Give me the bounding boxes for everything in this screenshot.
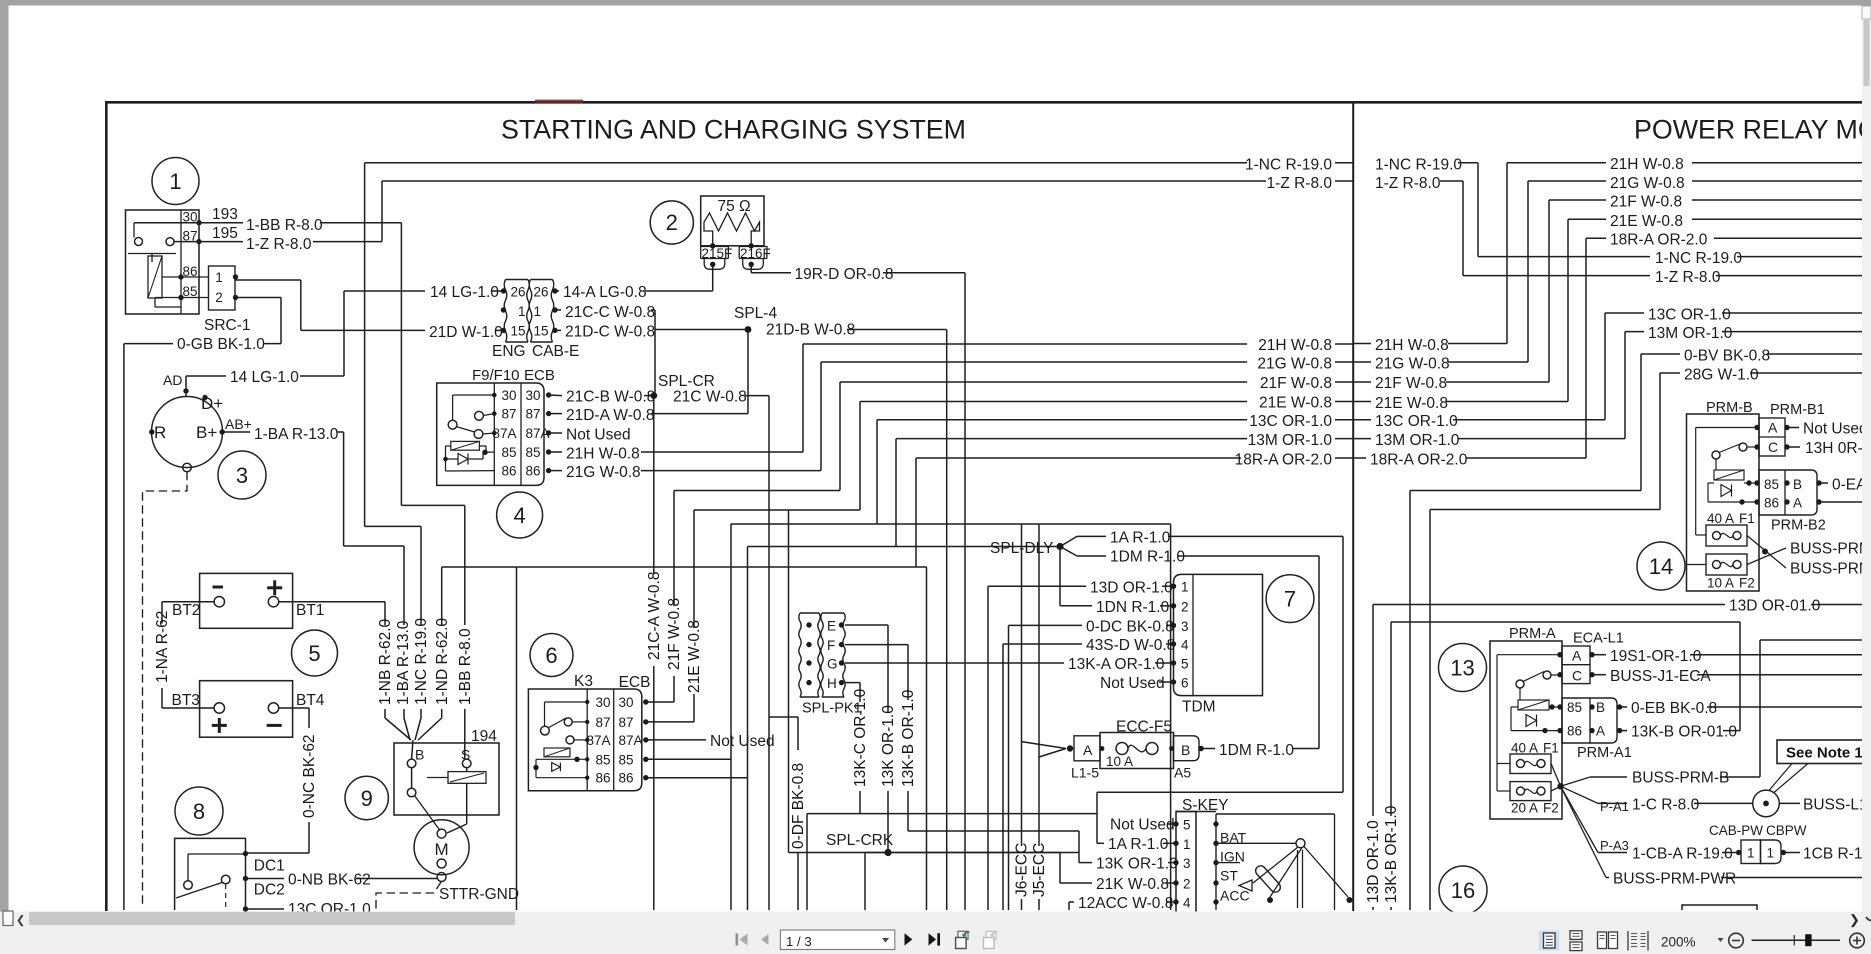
disconnect switch contacts bbox=[188, 853, 246, 855]
svg-text:21D W-1.0: 21D W-1.0 bbox=[429, 324, 503, 341]
wire 21K vertical bbox=[788, 510, 790, 853]
svg-text:SRC-1: SRC-1 bbox=[204, 317, 251, 334]
svg-text:18R-A OR-2.0: 18R-A OR-2.0 bbox=[1610, 232, 1708, 249]
svg-text:B: B bbox=[1596, 700, 1605, 715]
toolbar page number box bbox=[780, 930, 894, 950]
svg-text:F1: F1 bbox=[1543, 741, 1559, 756]
wire ECA feeder C bbox=[1429, 510, 1431, 911]
wire 13K OR-1.0 to S-KEY bbox=[1079, 862, 1092, 864]
svg-text:CAB-PW: CAB-PW bbox=[1709, 823, 1763, 838]
svg-text:❮: ❮ bbox=[16, 915, 25, 927]
svg-text:1CB R-19.: 1CB R-19. bbox=[1803, 846, 1871, 863]
svg-text:13M OR-1.0: 13M OR-1.0 bbox=[1375, 432, 1460, 449]
svg-text:F: F bbox=[827, 638, 835, 653]
svg-text:30: 30 bbox=[619, 695, 634, 710]
svg-text:13D OR-01.0: 13D OR-01.0 bbox=[1729, 598, 1821, 615]
scrollbar left button bbox=[3, 911, 13, 926]
svg-text:21F W-0.8: 21F W-0.8 bbox=[666, 598, 683, 670]
svg-text:0-EA: 0-EA bbox=[1832, 477, 1867, 494]
toolbar zoom in bbox=[1850, 933, 1865, 948]
starter solenoid box bbox=[394, 743, 499, 815]
svg-text:1: 1 bbox=[1183, 837, 1191, 852]
switch S-KEY contacts bbox=[1216, 842, 1296, 844]
svg-text:F9/F10: F9/F10 bbox=[472, 367, 520, 384]
relay K1 box bbox=[126, 210, 200, 314]
starter ground dashed wire bbox=[376, 882, 441, 910]
wire ECA feeder A bbox=[1409, 491, 1411, 911]
svg-text:19S1-OR-1.0: 19S1-OR-1.0 bbox=[1610, 648, 1702, 665]
relay K1 contacts bbox=[135, 238, 143, 246]
wire BUSS-J1-ECA bbox=[1594, 674, 1606, 676]
viewer left gray strip bbox=[0, 6, 9, 912]
wire 21E W-0.8 bbox=[646, 721, 694, 723]
wire 21H W-0.8 bbox=[549, 451, 562, 453]
switch junction dots bbox=[243, 851, 248, 856]
svg-text:13K-B OR-1.0: 13K-B OR-1.0 bbox=[900, 689, 917, 787]
svg-text:F2: F2 bbox=[1739, 576, 1755, 591]
wire 14-A LG-0.8 bbox=[554, 290, 560, 292]
svg-text:H: H bbox=[827, 676, 837, 691]
toolbar zoom dropdown bbox=[1718, 938, 1724, 942]
fuse tab 216F bbox=[739, 247, 767, 270]
svg-text:40 A: 40 A bbox=[1511, 741, 1538, 756]
wire 13D OR-01.0 bbox=[1372, 605, 1374, 817]
toolbar zoom slider bbox=[1752, 939, 1841, 941]
svg-text:15: 15 bbox=[534, 324, 549, 339]
svg-text:26: 26 bbox=[510, 285, 525, 300]
svg-text:21F W-0.8: 21F W-0.8 bbox=[1375, 375, 1447, 392]
svg-text:1-NB R-62.0: 1-NB R-62.0 bbox=[377, 618, 394, 705]
svg-text:D+: D+ bbox=[201, 394, 223, 413]
resistor 75 ohm box bbox=[701, 196, 764, 246]
svg-text:Not Used: Not Used bbox=[1100, 675, 1165, 692]
wire 13M OR-1.0 right bbox=[1353, 438, 1371, 440]
wire J6-ECC bbox=[1021, 524, 1023, 846]
wire 18R-A OR-2.0 bbox=[516, 567, 518, 910]
junction PRM-A fuses bbox=[1551, 764, 1561, 787]
svg-text:1: 1 bbox=[534, 304, 542, 319]
toolbar layout icon continuous bbox=[1570, 931, 1582, 940]
svg-text:10 A: 10 A bbox=[1707, 576, 1734, 591]
svg-text:1-CB-A R-19.0: 1-CB-A R-19.0 bbox=[1632, 846, 1733, 863]
schematic border frame bbox=[105, 101, 108, 911]
svg-text:87A: 87A bbox=[619, 733, 643, 748]
svg-text:86: 86 bbox=[595, 771, 610, 786]
component number 8 circle bbox=[175, 787, 223, 835]
svg-text:1: 1 bbox=[1747, 846, 1755, 861]
wire 28G W-1.0 bbox=[1659, 373, 1661, 510]
svg-text:1-NA R-62: 1-NA R-62 bbox=[154, 611, 171, 683]
svg-text:BT4: BT4 bbox=[296, 692, 325, 709]
note See Note 1 bbox=[1777, 740, 1864, 764]
svg-text:28G W-1.0: 28G W-1.0 bbox=[1684, 367, 1759, 384]
svg-text:21G W-0.8: 21G W-0.8 bbox=[1257, 356, 1332, 373]
svg-text:216F: 216F bbox=[740, 246, 771, 261]
svg-text:3: 3 bbox=[1183, 856, 1191, 871]
svg-text:21D-A W-0.8: 21D-A W-0.8 bbox=[566, 407, 654, 424]
relay F9/F10 pin dots bbox=[546, 392, 551, 397]
svg-text:6: 6 bbox=[545, 643, 557, 668]
svg-text:8: 8 bbox=[193, 799, 205, 824]
svg-text:CAB-E: CAB-E bbox=[532, 343, 579, 360]
svg-text:13D OR-1.0: 13D OR-1.0 bbox=[1365, 820, 1382, 903]
wire 21K W-0.8 bbox=[1059, 853, 1061, 884]
wire 14 LG-1.0 lower bbox=[185, 376, 187, 396]
svg-text:BT2: BT2 bbox=[172, 602, 200, 619]
svg-text:13K-C OR-1.0: 13K-C OR-1.0 bbox=[852, 688, 869, 787]
svg-text:1-BB R-8.0: 1-BB R-8.0 bbox=[457, 628, 474, 705]
svg-text:195: 195 bbox=[212, 225, 238, 242]
svg-text:0-DF BK-0.8: 0-DF BK-0.8 bbox=[790, 763, 807, 849]
svg-text:Not Used: Not Used bbox=[1803, 421, 1868, 438]
wire 1DN R-1.0 bbox=[1059, 547, 1061, 606]
starter solenoid coil bbox=[448, 772, 486, 784]
connector PRM-B2 bbox=[1759, 470, 1817, 515]
section divider bbox=[1352, 102, 1354, 911]
wire 21G W-0.8 bbox=[549, 470, 562, 472]
svg-text:1DM R-1.0: 1DM R-1.0 bbox=[1219, 742, 1294, 759]
wire BUSS-PRM-B bbox=[1561, 777, 1590, 786]
svg-text:19R-D OR-0.8: 19R-D OR-0.8 bbox=[795, 266, 894, 283]
svg-text:3: 3 bbox=[236, 463, 248, 488]
svg-text:87A: 87A bbox=[526, 426, 550, 441]
wire 43S-D W-0.8 bbox=[1002, 644, 1004, 910]
wire 0-EA bbox=[1821, 482, 1828, 484]
svg-text:9: 9 bbox=[361, 786, 373, 811]
svg-text:21C W-0.8: 21C W-0.8 bbox=[673, 389, 747, 406]
toolbar rotate icon 1 bbox=[958, 931, 968, 939]
svg-text:1: 1 bbox=[215, 270, 223, 285]
svg-text:2: 2 bbox=[215, 290, 223, 305]
svg-text:7: 7 bbox=[1284, 587, 1296, 612]
svg-text:See Note 1: See Note 1 bbox=[1786, 745, 1863, 762]
connector SPL-PK1 body bbox=[799, 613, 801, 697]
svg-text:G: G bbox=[827, 657, 838, 672]
svg-text:21E W-0.8: 21E W-0.8 bbox=[1375, 395, 1448, 412]
wire 21E W-0.8 right bbox=[1353, 401, 1371, 403]
svg-text:21K W-0.8: 21K W-0.8 bbox=[1096, 876, 1169, 893]
svg-text:43S-D W-0.8: 43S-D W-0.8 bbox=[1086, 637, 1175, 654]
starter terminals bbox=[407, 759, 416, 768]
svg-text:30: 30 bbox=[526, 388, 541, 403]
component number 16 circle bbox=[1439, 866, 1487, 914]
svg-text:A: A bbox=[1596, 724, 1605, 739]
wire 1-C R-8.0 bbox=[1561, 786, 1598, 803]
svg-text:1-Z R-8.0: 1-Z R-8.0 bbox=[1375, 175, 1441, 192]
svg-text:0-EB BK-0.8: 0-EB BK-0.8 bbox=[1631, 700, 1717, 717]
relay PRM-A internals bbox=[1497, 654, 1560, 656]
relay F9/F10 box bbox=[437, 383, 544, 485]
svg-text:1-Z R-8.0: 1-Z R-8.0 bbox=[1655, 269, 1721, 286]
svg-text:87: 87 bbox=[526, 407, 541, 422]
svg-text:A: A bbox=[1083, 742, 1093, 758]
svg-text:AD: AD bbox=[163, 372, 182, 388]
wire 12ACC W-0.8 bbox=[1068, 902, 1070, 910]
starter contact arm bbox=[411, 768, 413, 789]
svg-text:PRM-B1: PRM-B1 bbox=[1770, 402, 1825, 418]
svg-text:SPL-4: SPL-4 bbox=[734, 305, 777, 322]
svg-text:21E W-0.8: 21E W-0.8 bbox=[686, 620, 703, 693]
svg-text:1DM R-1.0: 1DM R-1.0 bbox=[1110, 549, 1185, 566]
wire 13C OR-1.0 bbox=[646, 758, 731, 760]
svg-text:BUSS-PRM-P: BUSS-PRM-P bbox=[1790, 561, 1871, 578]
svg-text:1A R-1.0: 1A R-1.0 bbox=[1108, 836, 1169, 853]
component number 14 circle bbox=[1637, 542, 1685, 590]
svg-text:1-BA R-13.0: 1-BA R-13.0 bbox=[254, 426, 339, 443]
svg-text:30: 30 bbox=[595, 695, 610, 710]
svg-text:1-Z R-8.0: 1-Z R-8.0 bbox=[246, 236, 312, 253]
label Not Used K3 bbox=[646, 739, 706, 741]
svg-text:1DN R-1.0: 1DN R-1.0 bbox=[1096, 599, 1170, 616]
relay K3 pin dots bbox=[643, 699, 648, 704]
svg-text:1-NC R-19.0: 1-NC R-19.0 bbox=[1375, 157, 1462, 174]
svg-text:21E W-0.8: 21E W-0.8 bbox=[1259, 395, 1332, 412]
wire 13K OR-1.0 (E) bbox=[845, 624, 888, 626]
wire 13K-C OR-1.0 (H) bbox=[845, 682, 860, 684]
svg-text:STARTING AND CHARGING SYSTEM: STARTING AND CHARGING SYSTEM bbox=[501, 115, 966, 145]
labels PRM-B1 wires bbox=[1789, 427, 1799, 429]
svg-text:14: 14 bbox=[1649, 554, 1673, 579]
svg-text:40 A: 40 A bbox=[1707, 511, 1734, 526]
starter wires fan bbox=[385, 718, 411, 740]
svg-text:5: 5 bbox=[1183, 818, 1191, 833]
svg-text:194: 194 bbox=[471, 728, 497, 745]
svg-text:ECB: ECB bbox=[524, 367, 555, 384]
svg-text:1: 1 bbox=[518, 304, 526, 319]
wire 13K-B OR-1.0 (F) bbox=[845, 644, 908, 646]
svg-text:STTR-GND: STTR-GND bbox=[439, 886, 519, 903]
relay K3 internals bbox=[545, 701, 588, 703]
svg-text:BT3: BT3 bbox=[172, 692, 200, 709]
wire 1-NB R-62.0 bbox=[279, 601, 385, 603]
svg-text:B: B bbox=[415, 747, 424, 763]
toolbar layout icon facing bbox=[1598, 932, 1607, 949]
relay K3 box bbox=[528, 689, 641, 791]
svg-text:TDM: TDM bbox=[1182, 699, 1216, 716]
svg-text:ST: ST bbox=[1220, 868, 1238, 884]
svg-text:21H W-0.8: 21H W-0.8 bbox=[1375, 337, 1449, 354]
svg-text:BUSS-J1-ECA: BUSS-J1-ECA bbox=[1610, 668, 1711, 685]
svg-text:1: 1 bbox=[1767, 846, 1775, 861]
wire 13C OR-1.0 right bbox=[1353, 419, 1371, 421]
component number 2 circle bbox=[650, 201, 693, 244]
svg-text:21F W-0.8: 21F W-0.8 bbox=[1260, 375, 1332, 392]
svg-text:AB+: AB+ bbox=[225, 416, 252, 432]
svg-text:30: 30 bbox=[501, 388, 516, 403]
wire 21D-C W-0.8 bbox=[554, 329, 562, 331]
svg-text:BUSS-PRM-B: BUSS-PRM-B bbox=[1632, 770, 1729, 787]
svg-text:13K OR-1.0: 13K OR-1.0 bbox=[880, 705, 897, 787]
svg-text:BUSS-PRM-PWR: BUSS-PRM-PWR bbox=[1613, 871, 1736, 888]
wire 1-NC R-19.0 row bbox=[365, 162, 1247, 164]
svg-text:193: 193 bbox=[212, 206, 238, 223]
wire 1-BA R-13.0 bbox=[224, 431, 250, 433]
relay PRM-B box bbox=[1687, 414, 1760, 591]
switch S-KEY connector bbox=[1176, 811, 1216, 813]
component number 4 circle bbox=[497, 492, 543, 538]
wire 1-NA R-62 bbox=[162, 601, 214, 603]
wire 0-BV BK-0.8 bbox=[1640, 354, 1642, 491]
svg-text:86: 86 bbox=[526, 464, 541, 479]
svg-text:26: 26 bbox=[534, 285, 549, 300]
component number 9 circle bbox=[345, 776, 388, 819]
wire 21C-A W-0.8 vertical bbox=[653, 396, 655, 574]
svg-text:CBPW: CBPW bbox=[1766, 823, 1807, 838]
wire 13M OR-1.0 bbox=[646, 777, 748, 779]
svg-text:86: 86 bbox=[619, 771, 634, 786]
wire solenoid to motor bbox=[466, 783, 468, 824]
svg-text:21G W-0.8: 21G W-0.8 bbox=[1610, 175, 1685, 192]
svg-text:85: 85 bbox=[501, 445, 516, 460]
svg-text:K3: K3 bbox=[574, 673, 593, 690]
svg-text:85: 85 bbox=[526, 445, 541, 460]
svg-text:J6-ECC: J6-ECC bbox=[1014, 843, 1031, 897]
svg-text:14-A LG-0.8: 14-A LG-0.8 bbox=[563, 284, 647, 301]
svg-text:21D-C W-0.8: 21D-C W-0.8 bbox=[565, 324, 655, 341]
svg-text:15: 15 bbox=[510, 324, 525, 339]
svg-text:0-NC BK-62: 0-NC BK-62 bbox=[301, 734, 318, 818]
svg-text:A5: A5 bbox=[1174, 765, 1191, 781]
connector TDM box bbox=[1174, 574, 1263, 695]
svg-text:5: 5 bbox=[1181, 657, 1189, 672]
relay F9/F10 internals bbox=[453, 394, 495, 396]
wire 19R-D OR-0.8 bbox=[750, 264, 752, 272]
wire 21G W-0.8 right bbox=[1353, 361, 1371, 363]
svg-text:21C-B W-0.8: 21C-B W-0.8 bbox=[566, 389, 655, 406]
svg-text:1-Z R-8.0: 1-Z R-8.0 bbox=[1267, 175, 1333, 192]
toolbar layout icon single (selected) bbox=[1539, 931, 1560, 951]
svg-text:0-GB BK-1.0: 0-GB BK-1.0 bbox=[177, 336, 265, 353]
battery BT1/BT2 terminals bbox=[214, 597, 224, 607]
svg-text:BUSS-L1-: BUSS-L1- bbox=[1803, 797, 1871, 814]
svg-text:87: 87 bbox=[501, 407, 516, 422]
svg-text:21C-A W-0.8: 21C-A W-0.8 bbox=[646, 572, 663, 660]
disconnect switch box bbox=[175, 838, 246, 910]
wire 21F W-0.8 right bbox=[1353, 381, 1371, 383]
svg-text:85: 85 bbox=[1764, 477, 1779, 492]
wire 0-GB BK-1.0 bbox=[236, 297, 282, 299]
fuse PRM-A F2 bbox=[1510, 782, 1551, 801]
svg-text:87: 87 bbox=[619, 715, 634, 730]
svg-text:R: R bbox=[154, 423, 166, 442]
connector ENG/CAB-E body bbox=[504, 280, 507, 342]
wire 1-Z R-8.0 row bbox=[382, 180, 1266, 182]
svg-text:SPL-CR: SPL-CR bbox=[658, 373, 715, 390]
wire 0-DF BK-0.8 bbox=[769, 716, 798, 718]
svg-text:1: 1 bbox=[1181, 580, 1189, 595]
svg-text:E: E bbox=[827, 619, 836, 634]
wire 13K-A OR-1.0 (G) bbox=[845, 662, 1064, 664]
component number 13 circle bbox=[1439, 644, 1487, 692]
svg-text:85: 85 bbox=[595, 753, 610, 768]
vertical scrollbar bbox=[1862, 6, 1871, 912]
svg-text:13K-A OR-1.0: 13K-A OR-1.0 bbox=[1068, 656, 1165, 673]
wire BUSS-PRM-PWR bbox=[1561, 786, 1606, 877]
svg-text:13: 13 bbox=[1450, 656, 1474, 681]
svg-text:A: A bbox=[1768, 420, 1778, 436]
relay K1 pin dots bbox=[196, 220, 201, 225]
wire 1CB R-19.0 bbox=[1785, 852, 1800, 854]
svg-text:4: 4 bbox=[1181, 638, 1189, 653]
wire 18R-A OR-2.0 right bbox=[1353, 457, 1366, 459]
svg-text:1: 1 bbox=[169, 169, 181, 194]
svg-text:87A: 87A bbox=[586, 733, 610, 748]
relay PRM-B internals bbox=[1696, 427, 1757, 429]
svg-text:B: B bbox=[1793, 477, 1802, 492]
svg-text:14 LG-1.0: 14 LG-1.0 bbox=[430, 284, 499, 301]
svg-text:10 A: 10 A bbox=[1106, 754, 1133, 769]
fuse tab 215F bbox=[701, 247, 729, 270]
starter motor M bbox=[414, 820, 469, 875]
svg-text:❯: ❯ bbox=[1849, 912, 1860, 928]
svg-text:P-A1: P-A1 bbox=[1600, 799, 1629, 814]
component number 7 circle bbox=[1266, 575, 1314, 623]
component number 3 circle bbox=[218, 451, 266, 499]
svg-text:P-A3: P-A3 bbox=[1600, 838, 1629, 853]
svg-text:Not Used: Not Used bbox=[710, 733, 775, 750]
relay PRM-A box bbox=[1490, 641, 1562, 819]
switch S-KEY body bbox=[1215, 814, 1217, 910]
svg-text:21D-B W-0.8: 21D-B W-0.8 bbox=[766, 322, 855, 339]
svg-text:1-BB R-8.0: 1-BB R-8.0 bbox=[246, 217, 323, 234]
wire S-KEY BAT feed bbox=[1170, 524, 1172, 910]
svg-text:86: 86 bbox=[1567, 724, 1582, 739]
svg-text:A: A bbox=[1572, 648, 1582, 664]
node BUSS-L1 bbox=[1753, 790, 1780, 817]
wire 1-CB-A R-19.0 bbox=[1561, 786, 1598, 852]
svg-text:21C-C W-0.8: 21C-C W-0.8 bbox=[565, 304, 655, 321]
svg-text:13K-B OR-01.0: 13K-B OR-01.0 bbox=[1631, 724, 1737, 741]
svg-text:DC1: DC1 bbox=[254, 858, 285, 875]
svg-text:21H W-0.8: 21H W-0.8 bbox=[1610, 156, 1684, 173]
svg-text:13K OR-1.0: 13K OR-1.0 bbox=[1096, 856, 1178, 873]
svg-text:2: 2 bbox=[666, 210, 678, 235]
battery BT3/BT4 terminals bbox=[214, 703, 224, 713]
svg-text:BT1: BT1 bbox=[296, 602, 324, 619]
box bottom right partial bbox=[1682, 905, 1757, 910]
svg-text:215F: 215F bbox=[702, 246, 733, 261]
svg-text:85: 85 bbox=[182, 284, 197, 299]
svg-text:85: 85 bbox=[619, 753, 634, 768]
svg-text:6: 6 bbox=[1181, 676, 1189, 691]
svg-text:Not Used: Not Used bbox=[566, 427, 631, 444]
wire 21C-B W-0.8 bbox=[549, 394, 562, 397]
svg-text:ACC: ACC bbox=[1220, 888, 1250, 904]
svg-text:C: C bbox=[1768, 439, 1778, 455]
resistor element bbox=[704, 213, 760, 246]
svg-text:87: 87 bbox=[595, 715, 610, 730]
battery BT3/BT4 box bbox=[200, 681, 293, 738]
wire 21F W-0.8 bbox=[646, 701, 674, 703]
wire 0-NB BK-62 bbox=[246, 878, 285, 880]
svg-text:PRM-B2: PRM-B2 bbox=[1771, 518, 1826, 534]
svg-text:1-NC R-19.0: 1-NC R-19.0 bbox=[1655, 250, 1742, 267]
svg-text:200%: 200% bbox=[1661, 935, 1696, 950]
wire 0-DC BK-0.8 bbox=[1008, 625, 1010, 910]
toolbar prev-page button bbox=[761, 934, 769, 945]
label Not Used F9 bbox=[549, 432, 562, 434]
alternator circle bbox=[152, 397, 223, 468]
component number 6 circle bbox=[530, 634, 573, 677]
svg-text:21H W-0.8: 21H W-0.8 bbox=[566, 446, 640, 463]
svg-text:ECA-L1: ECA-L1 bbox=[1573, 631, 1624, 647]
wire J5-ECC bbox=[1038, 524, 1040, 846]
red artifact mark bbox=[535, 100, 583, 104]
svg-text:2: 2 bbox=[1181, 599, 1189, 614]
svg-text:M: M bbox=[435, 840, 449, 859]
svg-text:PRM-A1: PRM-A1 bbox=[1577, 745, 1632, 761]
svg-text:13H 0R-3.: 13H 0R-3. bbox=[1805, 440, 1871, 457]
